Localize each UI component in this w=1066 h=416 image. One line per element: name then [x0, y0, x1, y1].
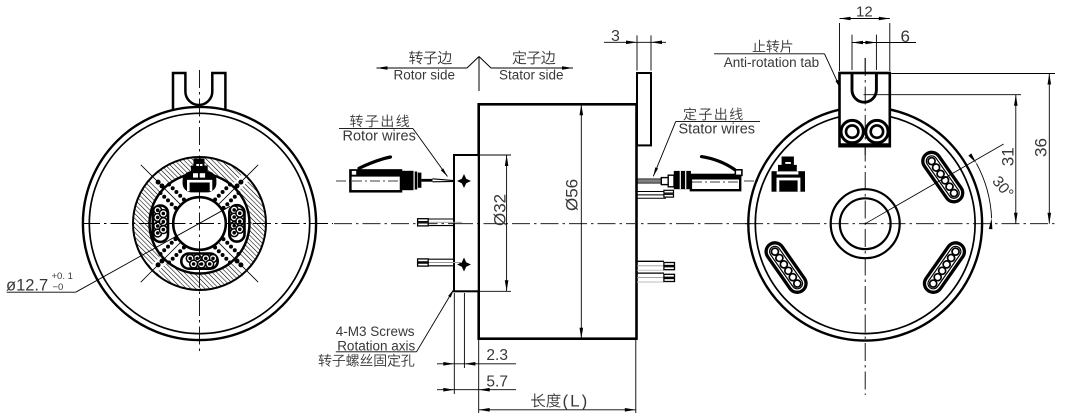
svg-text:Rotor side: Rotor side: [394, 68, 456, 83]
svg-text:3: 3: [611, 28, 620, 45]
svg-text:−0: −0: [53, 282, 64, 293]
svg-text:Stator wires: Stator wires: [679, 122, 756, 138]
svg-text:ø12.7: ø12.7: [6, 277, 48, 295]
svg-text:Ø32: Ø32: [491, 194, 510, 226]
svg-text:31: 31: [999, 147, 1018, 166]
svg-text:(L): (L): [563, 392, 590, 411]
svg-text:Rotor wires: Rotor wires: [343, 128, 416, 144]
svg-text:6: 6: [901, 27, 910, 46]
svg-text:4-M3 Screws: 4-M3 Screws: [336, 324, 415, 339]
svg-text:5.7: 5.7: [486, 373, 508, 390]
svg-text:Ø56: Ø56: [563, 179, 582, 211]
svg-text:2.3: 2.3: [486, 347, 508, 364]
svg-text:Anti-rotation tab: Anti-rotation tab: [724, 55, 819, 70]
svg-text:Stator side: Stator side: [499, 68, 564, 83]
svg-text:+0. 1: +0. 1: [52, 271, 73, 282]
svg-text:12: 12: [856, 3, 873, 20]
svg-text:Rotation axis: Rotation axis: [337, 339, 415, 354]
svg-text:36: 36: [1032, 138, 1051, 157]
